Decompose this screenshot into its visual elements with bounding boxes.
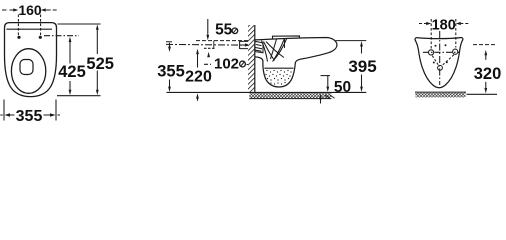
svg-text:320: 320: [474, 65, 502, 83]
svg-text:160: 160: [18, 2, 42, 18]
svg-text:425: 425: [58, 63, 86, 81]
svg-text:180: 180: [432, 17, 456, 33]
svg-text:55: 55: [215, 21, 233, 38]
svg-text:355: 355: [16, 108, 43, 123]
svg-text:395: 395: [348, 57, 376, 76]
svg-text:102: 102: [214, 55, 239, 72]
svg-text:50: 50: [334, 79, 351, 96]
svg-text:220: 220: [185, 69, 212, 86]
svg-text:525: 525: [86, 55, 114, 73]
svg-text:355: 355: [157, 62, 185, 80]
